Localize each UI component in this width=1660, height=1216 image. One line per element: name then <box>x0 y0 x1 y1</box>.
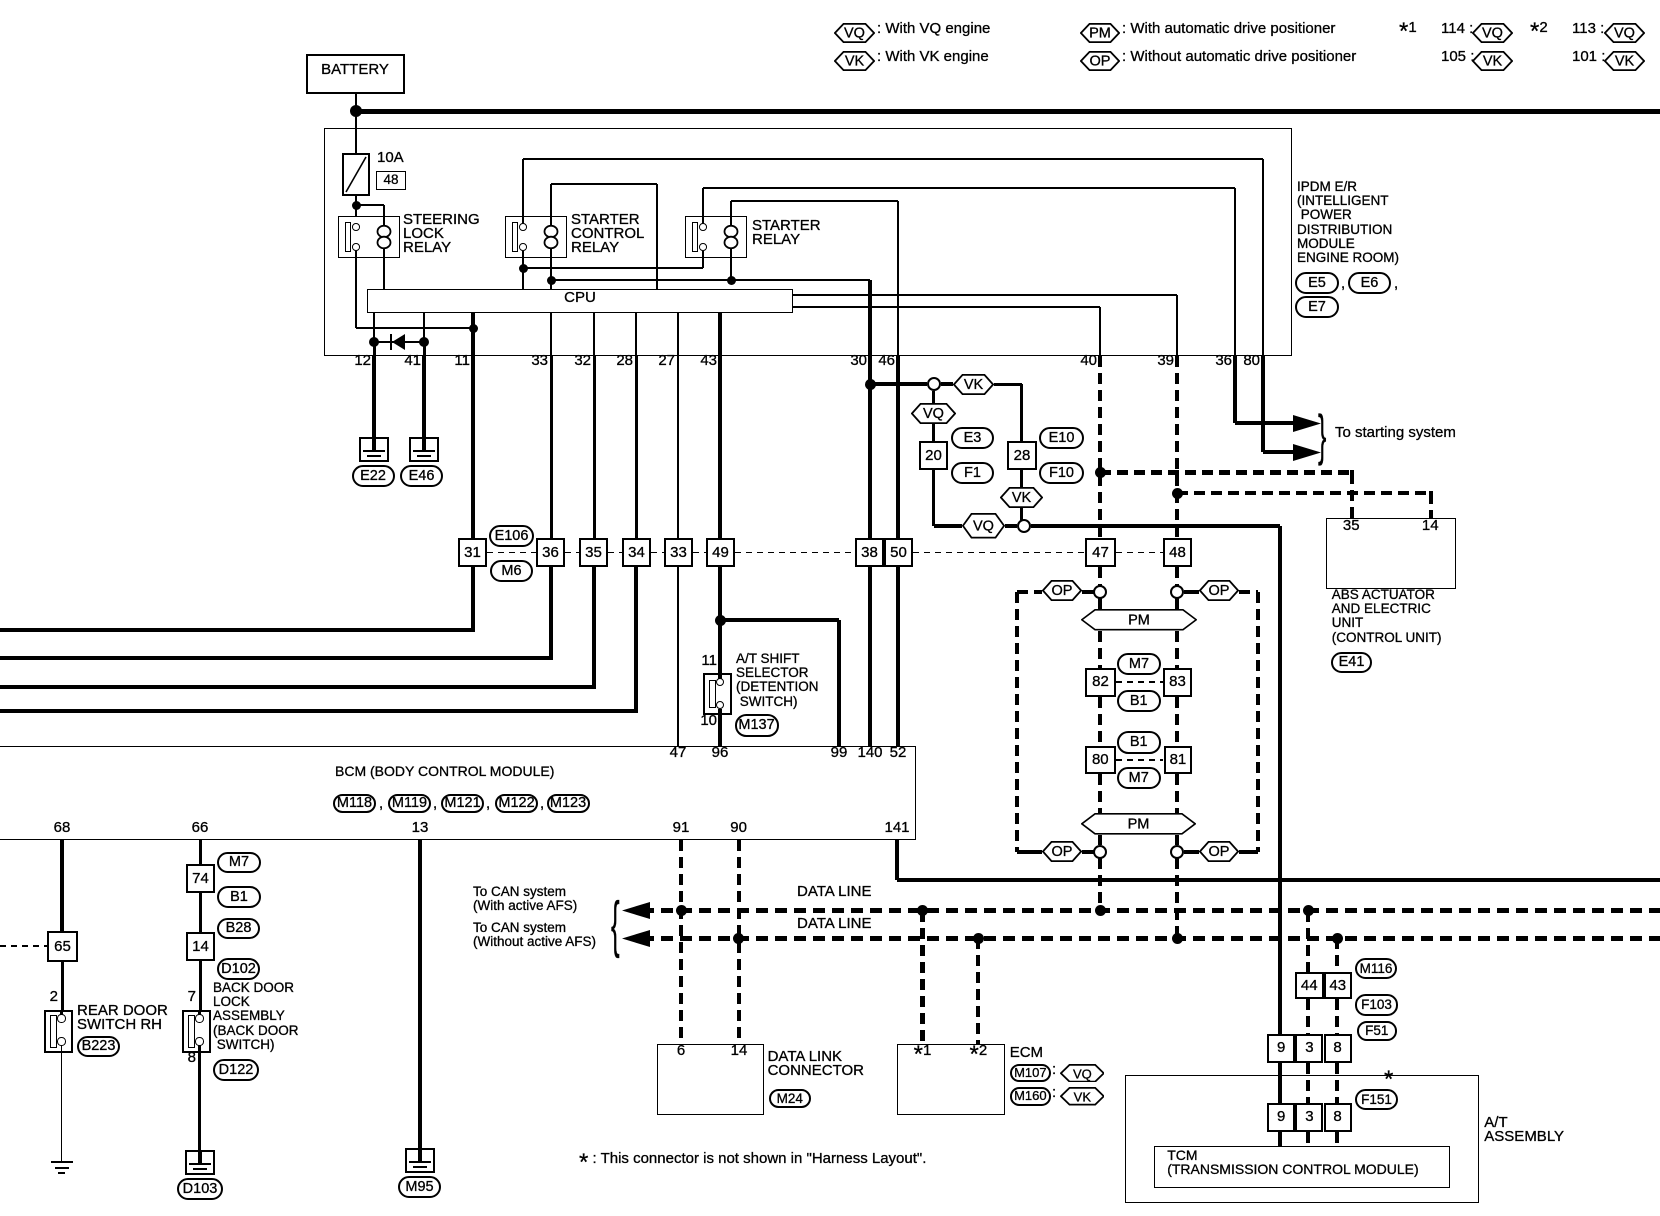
svg-text:VK: VK <box>1615 54 1635 70</box>
svg-text:VQ: VQ <box>973 518 994 534</box>
svg-text:VK: VK <box>1012 490 1032 506</box>
svg-text:VK: VK <box>1073 1089 1091 1104</box>
svg-text:VQ: VQ <box>844 26 865 42</box>
svg-text:OP: OP <box>1090 54 1111 70</box>
svg-text:VQ: VQ <box>1614 26 1635 42</box>
svg-text:PM: PM <box>1128 612 1150 628</box>
svg-text:VQ: VQ <box>923 406 944 422</box>
svg-text:VK: VK <box>1483 54 1503 70</box>
svg-text:VQ: VQ <box>1073 1066 1092 1081</box>
svg-text:OP: OP <box>1209 844 1230 860</box>
svg-text:OP: OP <box>1052 844 1073 860</box>
svg-text:PM: PM <box>1128 816 1150 832</box>
svg-text:OP: OP <box>1209 583 1230 599</box>
svg-text:OP: OP <box>1052 583 1073 599</box>
svg-text:VK: VK <box>845 54 865 70</box>
svg-text:VQ: VQ <box>1482 26 1503 42</box>
svg-text:PM: PM <box>1089 26 1111 42</box>
svg-text:VK: VK <box>964 377 984 393</box>
